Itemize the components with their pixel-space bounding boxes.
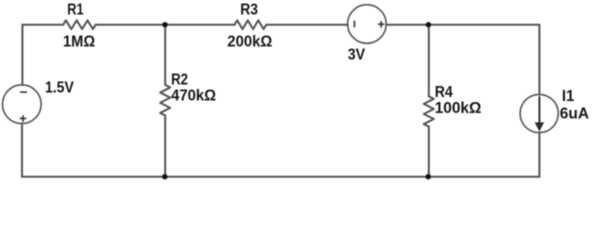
- svg-text:6uA: 6uA: [560, 106, 590, 123]
- svg-text:1MΩ: 1MΩ: [63, 34, 95, 51]
- svg-text:3V: 3V: [348, 46, 366, 63]
- svg-text:R1: R1: [67, 1, 83, 18]
- svg-text:1.5V: 1.5V: [45, 80, 74, 97]
- svg-text:I1: I1: [562, 88, 575, 105]
- svg-text:470kΩ: 470kΩ: [171, 87, 216, 104]
- svg-text:100kΩ: 100kΩ: [435, 100, 482, 117]
- svg-text:R3: R3: [240, 1, 258, 18]
- svg-text:R2: R2: [171, 72, 188, 89]
- svg-text:R4: R4: [435, 84, 453, 101]
- svg-text:200kΩ: 200kΩ: [227, 33, 272, 50]
